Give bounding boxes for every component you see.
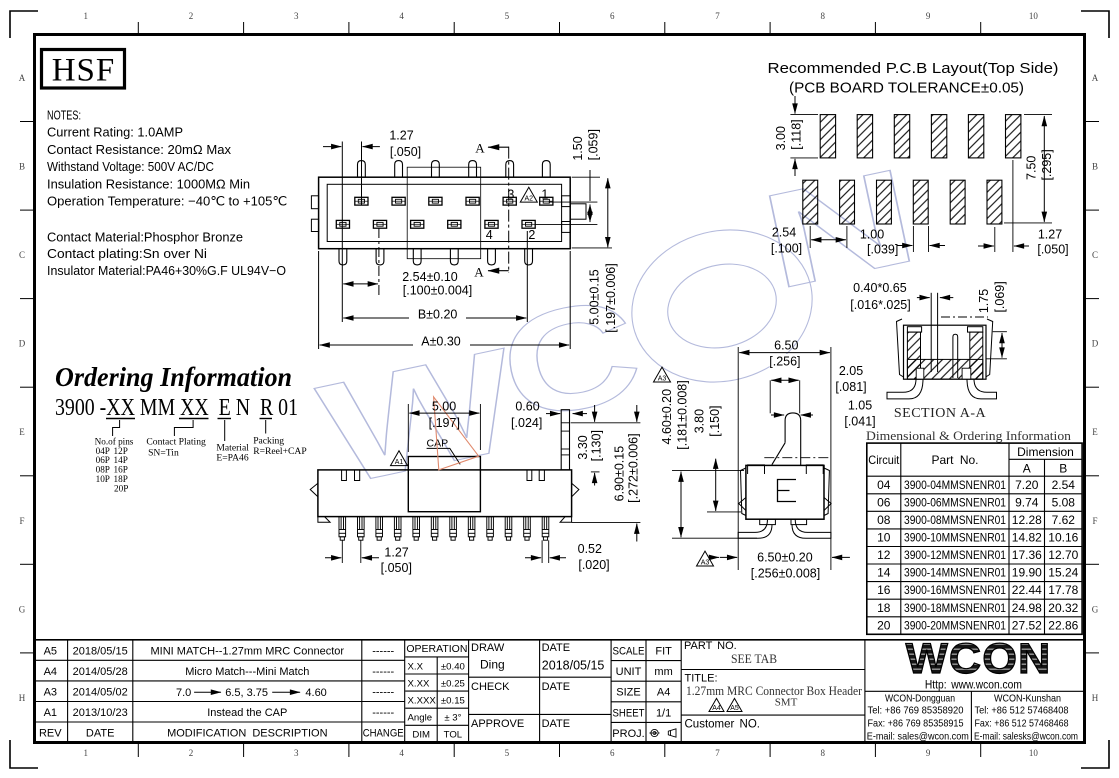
pcb dim 7.50 line — [1024, 114, 1052, 116]
svg-text:SCALE: SCALE — [613, 646, 645, 658]
corner bracket top-right — [1081, 11, 1109, 38]
leader packing — [265, 420, 267, 434]
frame zone ticks bottom — [138, 743, 980, 757]
svg-text:A4: A4 — [44, 666, 57, 678]
svg-text:3900-18MMSNENR01: 3900-18MMSNENR01 — [904, 601, 1006, 615]
svg-text:22.44: 22.44 — [1012, 583, 1042, 597]
svg-text:CHECK: CHECK — [471, 681, 510, 693]
svg-text:A2: A2 — [525, 196, 534, 203]
svg-text:7: 7 — [715, 748, 720, 758]
dim 1.27 ext line b — [361, 142, 363, 206]
dim A ext lines — [318, 251, 320, 349]
svg-text:Contact plating:Sn over Ni: Contact plating:Sn over Ni — [47, 246, 207, 261]
svg-text:1.00: 1.00 — [860, 228, 884, 242]
svg-text:Contact Plating: Contact Plating — [146, 436, 206, 447]
pcb dim 1.00 arrows — [912, 226, 914, 252]
svg-text:HSF: HSF — [52, 53, 116, 89]
svg-text:Withstand Voltage: 500V AC/DC: Withstand Voltage: 500V AC/DC — [47, 159, 214, 174]
front view cap — [408, 457, 480, 512]
svg-text:4.60: 4.60 — [305, 687, 326, 699]
svg-text:08: 08 — [877, 513, 891, 527]
side view dim 6.50 top — [739, 352, 830, 354]
svg-text:DRAW: DRAW — [471, 642, 505, 654]
svg-text:15.24: 15.24 — [1048, 566, 1078, 580]
section arrow top — [488, 146, 509, 148]
svg-text:A: A — [1023, 462, 1031, 476]
svg-text:14.82: 14.82 — [1012, 531, 1042, 545]
svg-text:SEE TAB: SEE TAB — [731, 652, 777, 666]
svg-text:1: 1 — [83, 11, 88, 21]
top view left tab lower — [311, 219, 318, 231]
svg-text:Dimensional & Ordering Informa: Dimensional & Ordering Information — [866, 429, 1072, 443]
notes text block — [47, 108, 287, 279]
leader material — [224, 420, 226, 441]
svg-text:16: 16 — [877, 583, 891, 597]
label contact plating — [146, 436, 206, 458]
svg-text:F: F — [1092, 516, 1097, 526]
svg-text:[.100]: [.100] — [771, 242, 802, 256]
side view dim 3.80 — [707, 511, 741, 513]
label material — [216, 442, 249, 463]
svg-text:1/1: 1/1 — [656, 707, 671, 719]
svg-text:22.86: 22.86 — [1048, 618, 1078, 632]
svg-text:27.52: 27.52 — [1012, 618, 1042, 632]
corner bracket bottom-right — [1081, 740, 1109, 768]
svg-text:WCON-Kunshan: WCON-Kunshan — [994, 694, 1061, 705]
dim 5.00 body height ext — [572, 247, 612, 249]
svg-text:E-mail: sales@wcon.com: E-mail: sales@wcon.com — [867, 731, 969, 742]
svg-text:[.181±0.008]: [.181±0.008] — [676, 380, 690, 449]
section A-A right flange — [986, 319, 993, 377]
svg-text:OPERATION: OPERATION — [406, 643, 467, 655]
svg-text:B±0.20: B±0.20 — [418, 308, 458, 322]
watermark WCON letter O — [616, 211, 829, 401]
svg-text:[.130]: [.130] — [590, 430, 604, 461]
section A-A right wing — [968, 327, 983, 332]
svg-text:[.024]: [.024] — [511, 416, 542, 430]
svg-text:[.150]: [.150] — [708, 405, 722, 436]
svg-text:Insulator Material:PA46+30%G.F: Insulator Material:PA46+30%G.F UL94V−O — [47, 263, 286, 278]
svg-text:B: B — [19, 162, 25, 172]
svg-text:SIZE: SIZE — [616, 687, 640, 699]
side view top pin — [772, 413, 801, 466]
front view dim 0.52 — [541, 540, 543, 563]
svg-text:3900-20MMSNENR01: 3900-20MMSNENR01 — [904, 618, 1006, 632]
side view dim 6.50 bottom — [720, 556, 737, 558]
front view left tab — [310, 483, 318, 497]
svg-text:Http: www.wcon.com: Http: www.wcon.com — [925, 680, 1022, 692]
svg-text:1.75: 1.75 — [977, 289, 991, 313]
svg-text:14P: 14P — [114, 455, 128, 465]
svg-text:2018/05/15: 2018/05/15 — [73, 645, 128, 657]
svg-text:------: ------ — [372, 707, 394, 719]
pcb pads bottom row — [803, 180, 1002, 224]
section A-A slab notch right — [962, 368, 971, 379]
side view E mark — [778, 480, 797, 502]
front view left foot — [318, 517, 330, 523]
svg-text:5.08: 5.08 — [1052, 495, 1076, 509]
HSF logo box — [42, 50, 125, 89]
frame zone letters right — [1092, 73, 1099, 703]
svg-text:3: 3 — [294, 11, 299, 21]
watermark WCON letter C — [487, 266, 654, 453]
svg-text:X.X: X.X — [408, 661, 424, 672]
svg-text:Insulation Resistance: 1000MΩ: Insulation Resistance: 1000MΩ Min — [47, 176, 250, 191]
svg-text:PROJ.: PROJ. — [612, 728, 644, 740]
svg-text:19.90: 19.90 — [1012, 566, 1042, 580]
svg-text:[.016*.025]: [.016*.025] — [850, 298, 910, 312]
svg-text:DATE: DATE — [542, 642, 571, 654]
side view right leg — [792, 519, 831, 538]
dimensional table rows — [877, 478, 1079, 633]
dim B line — [343, 317, 526, 319]
svg-text:10: 10 — [1029, 748, 1039, 758]
svg-text:[.295]: [.295] — [1040, 149, 1054, 180]
svg-text:------: ------ — [372, 645, 394, 657]
svg-text:2.05: 2.05 — [839, 364, 863, 378]
svg-text:[.039]: [.039] — [867, 243, 898, 257]
dim 2.54 arrows — [343, 283, 378, 285]
svg-text:[.256±0.008]: [.256±0.008] — [751, 567, 820, 581]
leader no.of pins — [113, 420, 120, 436]
svg-text:04: 04 — [877, 478, 891, 492]
svg-text:7.50: 7.50 — [1025, 156, 1039, 180]
svg-text:WCON: WCON — [906, 635, 1052, 683]
front view right strip — [561, 410, 569, 470]
top view contact pads row 1 — [355, 197, 553, 205]
svg-text:24.98: 24.98 — [1012, 601, 1042, 615]
wcon kunshan address — [974, 694, 1078, 743]
svg-text:3900 -XX MM XX E N R 01: 3900 -XX MM XX E N R 01 — [55, 395, 298, 421]
top view top leads — [358, 161, 551, 178]
svg-text:[.050]: [.050] — [381, 561, 412, 575]
svg-text:10: 10 — [1029, 11, 1039, 21]
section A-A bottom slab hatched — [907, 359, 982, 379]
svg-text:2013/10/23: 2013/10/23 — [73, 707, 128, 719]
svg-text:3900-08MMSNENR01: 3900-08MMSNENR01 — [904, 513, 1006, 527]
svg-text:mm: mm — [654, 666, 672, 678]
svg-text:0.60: 0.60 — [515, 400, 539, 414]
svg-text:6.5, 3.75: 6.5, 3.75 — [225, 687, 268, 699]
svg-text:2014/05/28: 2014/05/28 — [73, 666, 128, 678]
svg-text:A±0.30: A±0.30 — [421, 335, 461, 349]
side view right latch — [824, 498, 831, 511]
svg-text:2: 2 — [189, 11, 194, 21]
svg-text:------: ------ — [372, 686, 394, 698]
section A-A left flange — [897, 319, 904, 377]
svg-text:5.00: 5.00 — [432, 400, 456, 414]
dim 1.27 ext line a — [341, 142, 343, 323]
svg-text:[.041]: [.041] — [844, 415, 875, 429]
section arrow bottom — [488, 270, 509, 272]
svg-text:2: 2 — [528, 228, 535, 242]
top view body inner — [327, 184, 561, 241]
svg-text:2.54: 2.54 — [1052, 478, 1076, 492]
svg-text:E-mail: salesks@wcon.com: E-mail: salesks@wcon.com — [974, 731, 1078, 742]
pcb dim 2.54 arrows — [809, 226, 811, 248]
svg-text:3: 3 — [294, 748, 299, 758]
svg-text:10: 10 — [877, 531, 891, 545]
svg-text:D: D — [19, 339, 26, 349]
part no / title block — [681, 640, 865, 743]
svg-text:± 3°: ± 3° — [444, 713, 461, 724]
svg-text:1.27: 1.27 — [384, 546, 408, 560]
svg-text:WCON-Dongguan: WCON-Dongguan — [885, 694, 955, 705]
svg-text:±0.25: ±0.25 — [441, 678, 465, 689]
title warning triangle A4 — [709, 698, 724, 711]
side view right wing — [806, 465, 823, 474]
svg-text:6.90±0.15: 6.90±0.15 — [612, 446, 626, 502]
front view top notch left — [342, 470, 360, 481]
svg-text:2.54: 2.54 — [772, 226, 796, 240]
side view left wing — [748, 465, 765, 474]
svg-text:6.50±0.20: 6.50±0.20 — [757, 551, 813, 565]
svg-text:Tel: +86 769 85358920: Tel: +86 769 85358920 — [868, 706, 964, 717]
svg-text:08P: 08P — [96, 465, 110, 475]
svg-text:3.80: 3.80 — [693, 409, 707, 433]
underline pins XX — [106, 418, 135, 420]
svg-text:Tel: +86 512 57468408: Tel: +86 512 57468408 — [975, 706, 1069, 717]
section A-A left wing — [907, 327, 921, 332]
svg-text:9: 9 — [926, 748, 931, 758]
section A-A dim 1.75 line — [993, 331, 1007, 333]
side view dash center line — [764, 457, 829, 459]
svg-text:16P: 16P — [114, 465, 128, 475]
svg-text:Circuit: Circuit — [868, 453, 900, 467]
svg-text:0.40*0.65: 0.40*0.65 — [853, 281, 907, 295]
svg-text:SHEET: SHEET — [613, 707, 645, 719]
top view body outer — [319, 177, 571, 249]
svg-text:20P: 20P — [114, 484, 128, 494]
side view left latch — [739, 498, 746, 511]
svg-text:5: 5 — [505, 748, 510, 758]
svg-text:20.32: 20.32 — [1048, 601, 1078, 615]
svg-text:10.16: 10.16 — [1048, 531, 1078, 545]
frame zone letters left — [19, 73, 26, 703]
pcb dim 1.27 arrows — [994, 227, 996, 252]
svg-text:2018/05/15: 2018/05/15 — [542, 659, 605, 673]
svg-text:A3: A3 — [658, 376, 667, 383]
dim 1.27 arrows — [323, 146, 341, 148]
draw/check/approve block — [469, 640, 611, 743]
svg-text:[.059]: [.059] — [586, 129, 600, 160]
top view bottom leads — [339, 249, 533, 265]
svg-text:6: 6 — [610, 748, 615, 758]
svg-text:SECTION A-A: SECTION A-A — [894, 406, 987, 421]
svg-text:1.27: 1.27 — [389, 129, 413, 143]
svg-text:APPROVE: APPROVE — [471, 718, 524, 730]
svg-text:2014/05/02: 2014/05/02 — [73, 686, 128, 698]
pcb pads top row — [820, 115, 1021, 158]
svg-text:E: E — [1092, 427, 1098, 437]
svg-text:Contact Material:Phosphor Bron: Contact Material:Phosphor Bronze — [47, 230, 243, 245]
top view warning triangle A2 — [520, 187, 537, 202]
svg-text:G: G — [19, 604, 26, 614]
scale/unit/size/sheet/proj block — [611, 640, 681, 743]
svg-text:NOTES:: NOTES: — [47, 108, 81, 123]
svg-text:4.60±0.20: 4.60±0.20 — [660, 389, 674, 445]
section A-A center pin — [930, 293, 932, 372]
underline plating XX — [179, 418, 209, 420]
svg-text:12: 12 — [877, 548, 891, 562]
label packing — [253, 435, 306, 457]
svg-text:2.54±0.10: 2.54±0.10 — [402, 270, 458, 284]
top view contact pads row 2 — [336, 220, 535, 228]
side view left leg — [738, 519, 772, 538]
side view warning triangle A3 bottom — [697, 551, 714, 566]
svg-text:Fax: +86 512 57468468: Fax: +86 512 57468468 — [975, 718, 1069, 729]
svg-text:9.74: 9.74 — [1015, 495, 1039, 509]
svg-text:[.050]: [.050] — [1037, 243, 1068, 257]
side view dim 4.60 — [672, 470, 744, 472]
svg-text:1.50: 1.50 — [571, 136, 585, 160]
dim A line — [320, 344, 570, 346]
svg-text:A5: A5 — [44, 645, 57, 657]
svg-text:SN=Tin: SN=Tin — [148, 447, 179, 458]
svg-text:Instead the CAP: Instead the CAP — [207, 707, 287, 719]
label no.of pins — [95, 437, 134, 494]
svg-text:[.081]: [.081] — [835, 380, 866, 394]
svg-text:6: 6 — [610, 11, 615, 21]
dim B ext line — [526, 231, 528, 322]
top view cap outline — [407, 167, 481, 259]
operation tolerance table — [405, 640, 468, 743]
svg-text:Contact Resistance: 20mΩ Max: Contact Resistance: 20mΩ Max — [47, 142, 232, 157]
front view right foot — [560, 517, 572, 523]
svg-text:3900-12MMSNENR01: 3900-12MMSNENR01 — [904, 548, 1006, 562]
svg-text:[.050]: [.050] — [390, 145, 421, 159]
svg-text:18: 18 — [877, 601, 891, 615]
svg-text:A3: A3 — [701, 560, 710, 567]
svg-text:C: C — [1092, 250, 1098, 260]
svg-text:A: A — [474, 264, 484, 279]
section A-A left wall hatched — [907, 332, 920, 379]
svg-text:DATE: DATE — [86, 728, 115, 740]
section A-A slab notch left — [916, 368, 924, 379]
svg-text:Packing: Packing — [253, 435, 284, 446]
svg-text:[.020]: [.020] — [578, 558, 609, 572]
svg-text:DATE: DATE — [542, 718, 571, 730]
dim 5.00 body height line — [607, 178, 609, 247]
corner bracket bottom-left — [10, 740, 38, 768]
svg-text:A: A — [1092, 73, 1099, 83]
svg-text:C: C — [19, 250, 25, 260]
front view dim 3.30 — [571, 422, 641, 424]
frame zone numbers top — [83, 11, 1038, 21]
svg-text:1.27: 1.27 — [1038, 228, 1062, 242]
svg-text:12.70: 12.70 — [1048, 548, 1078, 562]
svg-text:06P: 06P — [96, 455, 110, 465]
svg-text:1.05: 1.05 — [848, 399, 872, 413]
svg-text:UNIT: UNIT — [616, 666, 642, 678]
side view dim 1.05 — [771, 414, 784, 416]
svg-text:PART NO.: PART NO. — [684, 640, 737, 652]
dimensional table grid — [867, 443, 1082, 634]
watermark WCON letter N — [750, 140, 929, 318]
side view left foot block — [760, 519, 776, 524]
svg-text:6.50: 6.50 — [774, 339, 798, 353]
svg-text:A5: A5 — [730, 705, 739, 712]
svg-text:Ding: Ding — [480, 658, 505, 672]
svg-text:A1: A1 — [44, 707, 57, 719]
svg-text:Part No.: Part No. — [931, 453, 978, 467]
svg-text:A: A — [475, 141, 485, 156]
revision table texts — [39, 645, 404, 739]
svg-text:[.100±0.004]: [.100±0.004] — [403, 284, 472, 298]
wcon address divider — [865, 690, 1084, 692]
dim 1.50 ext lines — [549, 201, 598, 203]
svg-text:±0.40: ±0.40 — [441, 661, 465, 672]
svg-text:CHANGE: CHANGE — [363, 728, 404, 740]
side view right foot block — [791, 519, 807, 524]
svg-text:Operation Temperature: −40℃ to: Operation Temperature: −40℃ to +105℃ — [47, 194, 287, 209]
section A-A second pin — [953, 334, 958, 378]
front view dim 6.90 — [572, 522, 641, 524]
svg-text:[.197]: [.197] — [429, 416, 460, 430]
watermark WCON letter W — [308, 317, 532, 516]
svg-text:A4: A4 — [712, 705, 721, 712]
svg-text:H: H — [19, 693, 26, 703]
wcon dongguan address — [867, 694, 969, 743]
svg-text:17.36: 17.36 — [1012, 548, 1042, 562]
side view right flange — [824, 468, 829, 516]
top view right rim tab upper — [562, 196, 571, 207]
section A-A right leg — [967, 379, 997, 399]
svg-text:SMT: SMT — [775, 697, 798, 709]
svg-text:3900-16MMSNENR01: 3900-16MMSNENR01 — [904, 583, 1006, 597]
frame zone ticks top — [138, 22, 980, 34]
svg-text:3900-10MMSNENR01: 3900-10MMSNENR01 — [904, 531, 1006, 545]
svg-text:F: F — [19, 516, 24, 526]
front view cap orange mark — [434, 397, 479, 470]
frame zone numbers bottom — [83, 748, 1038, 758]
svg-text:A4: A4 — [657, 687, 670, 699]
svg-text:A: A — [19, 73, 26, 83]
svg-text:MINI MATCH--1.27mm MRC Connect: MINI MATCH--1.27mm MRC Connector — [151, 645, 345, 657]
svg-text:REV: REV — [39, 728, 62, 740]
front view pins — [339, 517, 549, 541]
pcb dim 3.00 ext+arrows — [790, 114, 818, 116]
svg-text:5.00±0.15: 5.00±0.15 — [588, 269, 602, 325]
svg-text:±0.15: ±0.15 — [441, 696, 465, 707]
svg-text:FIT: FIT — [655, 646, 672, 658]
svg-text:B: B — [1059, 462, 1067, 476]
svg-text:3900-14MMSNENR01: 3900-14MMSNENR01 — [904, 566, 1006, 580]
svg-text:3.30: 3.30 — [576, 435, 590, 459]
svg-text:4: 4 — [399, 11, 404, 21]
side view dim 2.05 — [769, 380, 771, 413]
underline material E — [218, 418, 232, 420]
svg-text:7.62: 7.62 — [1052, 513, 1076, 527]
svg-text:4: 4 — [486, 228, 493, 242]
front view dim 1.27 — [341, 540, 343, 563]
leader contact plating — [174, 420, 193, 436]
underline packing R — [260, 418, 273, 420]
svg-text:------: ------ — [372, 666, 394, 678]
svg-text:E=PA46: E=PA46 — [216, 452, 248, 463]
svg-text:Current Rating: 1.0AMP: Current Rating: 1.0AMP — [47, 125, 183, 140]
svg-text:TOL: TOL — [444, 730, 463, 741]
front view dim 5.00 — [407, 404, 409, 452]
side view ext line left — [737, 347, 739, 570]
svg-text:DATE: DATE — [542, 681, 571, 693]
svg-text:7: 7 — [715, 11, 720, 21]
svg-text:MODIFICATION DESCRIPTION: MODIFICATION DESCRIPTION — [167, 728, 328, 740]
top view right outer tab — [570, 204, 586, 219]
svg-text:Customer NO.: Customer NO. — [685, 719, 761, 731]
svg-text:DIM: DIM — [412, 730, 430, 741]
front view top notch right — [527, 470, 544, 481]
